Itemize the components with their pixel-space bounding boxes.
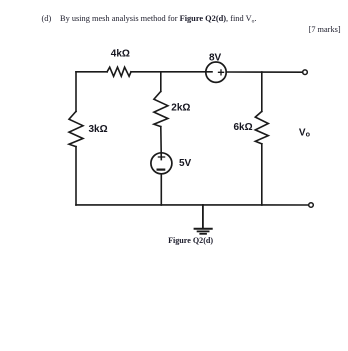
svg-text:5V: 5V: [179, 158, 192, 169]
resistor R4 6k zigzag: [255, 111, 268, 143]
wire top right segment: [226, 71, 302, 73]
voltage source V1 8V circle: [206, 62, 226, 82]
voltage source V2 5V circle: [151, 153, 172, 174]
svg-text:2kΩ: 2kΩ: [171, 102, 190, 113]
svg-text:6kΩ: 6kΩ: [234, 122, 253, 133]
terminal node bottom right: [309, 203, 314, 208]
svg-text:(d): (d): [42, 14, 52, 23]
wire right vertical bottom segment: [261, 144, 263, 205]
plus sign of 5V source: [158, 156, 164, 158]
svg-text:8V: 8V: [209, 53, 222, 64]
ground stem: [202, 205, 204, 228]
svg-text:4kΩ: 4kΩ: [111, 49, 130, 60]
wire top middle segment: [131, 71, 212, 73]
svg-text:[7 marks]: [7 marks]: [309, 25, 341, 34]
ground bar 3: [200, 233, 206, 235]
terminal node top right: [303, 70, 308, 75]
wire top-left horizontal segment: [76, 71, 107, 73]
plus sign of 8V source: [219, 70, 224, 75]
wire below 5V source: [160, 174, 162, 205]
resistor R2 3k zigzag: [69, 111, 83, 146]
svg-text:By using mesh analysis method: By using mesh analysis method for Figure…: [60, 14, 257, 24]
ground bar 2: [198, 230, 209, 232]
svg-text:3kΩ: 3kΩ: [89, 124, 108, 135]
wire left vertical top segment: [75, 72, 77, 112]
wire middle vertical top segment: [160, 72, 162, 92]
ground bar 1: [195, 228, 212, 230]
svg-text:Figure Q2(d): Figure Q2(d): [168, 236, 213, 245]
resistor R1 4k zigzag: [107, 67, 131, 76]
minus sign of 5V source: [158, 169, 165, 171]
svg-text:Vo: Vo: [299, 128, 311, 139]
wire left vertical bottom segment: [75, 147, 77, 205]
wire between 2k resistor and 5V source: [160, 127, 163, 160]
wire bottom horizontal: [76, 204, 309, 206]
resistor R3 2k zigzag: [154, 91, 168, 126]
wire right vertical top segment: [261, 72, 263, 111]
